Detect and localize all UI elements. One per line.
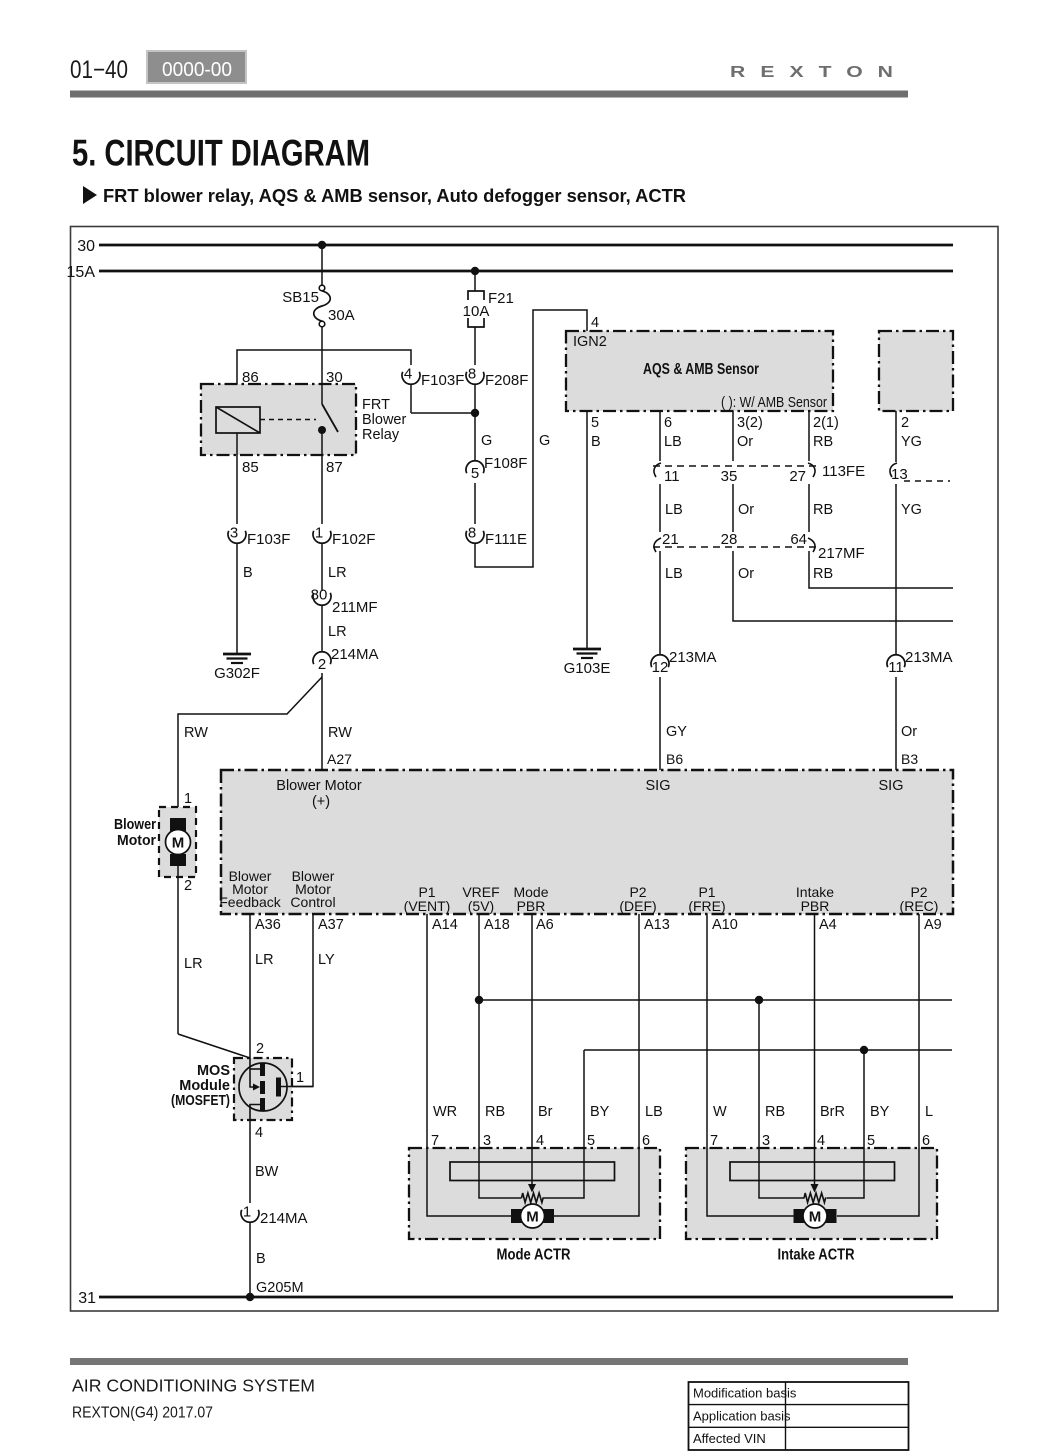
svg-text:LB: LB: [665, 566, 683, 582]
svg-text:REXTON: REXTON: [730, 63, 908, 81]
svg-text:M: M: [526, 1209, 539, 1226]
wire RB intake: [759, 1000, 805, 1198]
footer rule: [70, 1358, 908, 1365]
svg-text:10A: 10A: [463, 303, 490, 320]
svg-text:113FE: 113FE: [822, 463, 865, 480]
svg-text:Blower: Blower: [114, 817, 156, 833]
svg-text:30: 30: [326, 369, 343, 386]
svg-text:Relay: Relay: [362, 427, 400, 443]
wire to fuse F21: [474, 271, 476, 291]
REXTON logo: [730, 63, 908, 81]
svg-text:4: 4: [817, 1133, 825, 1149]
svg-text:A13: A13: [644, 917, 670, 933]
svg-text:A36: A36: [255, 917, 281, 933]
wire bus30 to SB15: [321, 245, 323, 286]
svg-text:6: 6: [922, 1133, 930, 1149]
wire G down: [474, 413, 476, 461]
blower motor box: [159, 807, 196, 877]
blower & A/C controller box: [221, 770, 953, 914]
svg-text:31: 31: [78, 1290, 96, 1307]
svg-text:G205M: G205M: [256, 1280, 304, 1296]
svg-text:27: 27: [789, 468, 806, 485]
svg-text:Affected VIN: Affected VIN: [693, 1431, 766, 1446]
svg-text:213MA: 213MA: [669, 649, 717, 666]
svg-text:2(1): 2(1): [813, 415, 839, 431]
wire B to G103E: [586, 411, 588, 649]
svg-text:RB: RB: [485, 1104, 505, 1120]
svg-text:Br: Br: [538, 1104, 553, 1120]
relay FRT Blower Relay box: [201, 384, 356, 455]
svg-text:12: 12: [652, 659, 669, 676]
wire A13 LB: [554, 914, 639, 1216]
svg-text:6: 6: [642, 1133, 650, 1149]
svg-text:RW: RW: [328, 725, 352, 741]
svg-text:A14: A14: [432, 917, 458, 933]
svg-text:G302F: G302F: [214, 665, 260, 682]
svg-text:21: 21: [662, 531, 679, 548]
svg-text:RB: RB: [813, 502, 833, 518]
wire VREF rail: [479, 999, 952, 1001]
svg-text:SIG: SIG: [879, 778, 904, 794]
node F208F junction: [471, 409, 479, 417]
svg-text:G: G: [539, 433, 550, 449]
svg-text:Intake ACTR: Intake ACTR: [778, 1247, 855, 1264]
svg-text:M: M: [809, 1209, 822, 1226]
svg-text:28: 28: [721, 531, 738, 548]
wire RW split: [321, 673, 323, 770]
svg-text:L: L: [925, 1104, 933, 1120]
svg-text:Or: Or: [738, 502, 754, 518]
MOSFET symbol: [239, 1058, 313, 1120]
svg-text:4: 4: [255, 1125, 263, 1141]
wire A9 L: [837, 914, 919, 1216]
svg-text:80: 80: [311, 587, 328, 604]
wire A36 LR: [249, 914, 251, 1058]
svg-text:Or: Or: [738, 566, 754, 582]
wire branch to coil 86 and F103F: [237, 350, 411, 407]
svg-text:8: 8: [468, 366, 476, 383]
connector row 113FE: [653, 463, 865, 485]
wire fuse to F208F: [474, 327, 476, 365]
AQS & AMB Sensor box: [566, 331, 833, 411]
connector 5 F108F: [466, 455, 527, 482]
node G205M: [246, 1293, 254, 1301]
svg-text:FRT: FRT: [362, 397, 390, 413]
diagram frame: [71, 227, 999, 1312]
wire blower to MOS diagonal: [178, 1034, 250, 1058]
svg-text:1: 1: [296, 1070, 304, 1086]
svg-text:WR: WR: [433, 1104, 457, 1120]
wire to F111E: [474, 483, 476, 524]
connector 2 214MA: [313, 646, 379, 673]
intake actuator box: [686, 1148, 937, 1239]
node bus15A junction: [471, 267, 479, 275]
mode actuator box: [409, 1148, 660, 1239]
wire YG column: [895, 411, 897, 462]
svg-text:YG: YG: [901, 502, 922, 518]
svg-text:5: 5: [471, 465, 479, 482]
svg-text:B: B: [256, 1251, 266, 1267]
svg-text:G103E: G103E: [564, 660, 611, 677]
wire IGN2 feed: [475, 310, 587, 567]
svg-text:AQS & AMB Sensor: AQS & AMB Sensor: [643, 361, 759, 378]
svg-text:LR: LR: [328, 624, 347, 640]
svg-text:30A: 30A: [328, 307, 355, 324]
right sensor box (truncated): [879, 331, 953, 411]
node bus30 junction: [318, 241, 326, 249]
svg-text:LR: LR: [328, 565, 347, 581]
svg-text:( ): W/ AMB Sensor: ( ): W/ AMB Sensor: [721, 395, 827, 411]
wire B to G205M: [249, 1222, 251, 1297]
wire BY mode: [544, 1050, 585, 1198]
svg-text:(+): (+): [312, 794, 330, 810]
wire blower motor pin2: [177, 866, 179, 1034]
svg-text:BW: BW: [255, 1164, 279, 1180]
svg-text:F108F: F108F: [484, 455, 527, 472]
wire F103F leg: [410, 384, 412, 413]
wire LR: [321, 543, 323, 591]
section code box 0000-00: [147, 51, 246, 83]
svg-text:AIR CONDITIONING SYSTEM: AIR CONDITIONING SYSTEM: [72, 1376, 315, 1396]
svg-text:Or: Or: [901, 724, 917, 740]
svg-text:Motor: Motor: [117, 833, 156, 849]
fuse F21 10A: [463, 290, 514, 327]
svg-text:7: 7: [431, 1133, 439, 1149]
wire A37 LY: [281, 914, 313, 1087]
svg-text:W: W: [713, 1104, 727, 1120]
connector 13: [890, 463, 950, 483]
wire B to ground: [236, 543, 238, 654]
svg-text:Blower Motor: Blower Motor: [276, 778, 362, 794]
svg-text:YG: YG: [901, 434, 922, 450]
relay link dashed: [260, 419, 316, 421]
svg-text:86: 86: [242, 369, 259, 386]
svg-text:Blower: Blower: [362, 412, 406, 428]
svg-text:LR: LR: [255, 952, 274, 968]
wire Or column: [732, 411, 734, 461]
svg-text:LB: LB: [645, 1104, 663, 1120]
wire PBR low rail: [584, 1049, 952, 1051]
svg-text:5: 5: [591, 415, 599, 431]
wire relay85 down: [236, 433, 238, 524]
blower motor M: [166, 818, 191, 866]
svg-text:2: 2: [318, 656, 326, 673]
svg-text:LR: LR: [184, 956, 203, 972]
svg-text:211MF: 211MF: [332, 599, 378, 616]
mode actuator potentiometer: [522, 1193, 544, 1203]
svg-text:SB15: SB15: [282, 289, 319, 306]
svg-text:A9: A9: [924, 917, 942, 933]
svg-text:15A: 15A: [67, 264, 96, 281]
svg-text:F111E: F111E: [485, 531, 527, 548]
svg-text:LB: LB: [664, 434, 682, 450]
svg-text:217MF: 217MF: [818, 545, 865, 562]
svg-text:A10: A10: [712, 917, 738, 933]
svg-text:Feedback: Feedback: [219, 894, 281, 910]
svg-text:GY: GY: [666, 724, 687, 740]
wire SB15 to relay pin30: [321, 327, 323, 384]
connector 4 F103F: [402, 366, 464, 390]
relay coil: [216, 407, 260, 433]
svg-text:(FRE): (FRE): [688, 898, 725, 914]
ground G302F: [214, 654, 260, 682]
wire relay87 down: [321, 455, 323, 524]
svg-text:4: 4: [536, 1133, 544, 1149]
connector 8 F111E: [466, 525, 527, 549]
svg-text:214MA: 214MA: [331, 646, 379, 663]
connector 11 213MA: [887, 649, 953, 676]
svg-text:3: 3: [483, 1133, 491, 1149]
svg-text:G: G: [481, 433, 492, 449]
wire join to node: [411, 412, 475, 414]
svg-text:B3: B3: [901, 751, 918, 767]
svg-text:A37: A37: [318, 917, 344, 933]
wire LR 2: [321, 605, 323, 652]
svg-text:PBR: PBR: [801, 898, 830, 914]
svg-text:(REC): (REC): [900, 898, 939, 914]
svg-text:Control: Control: [290, 894, 335, 910]
svg-text:5: 5: [867, 1133, 875, 1149]
svg-text:Modification basis: Modification basis: [693, 1386, 797, 1401]
svg-text:213MA: 213MA: [905, 649, 953, 666]
svg-text:A18: A18: [484, 917, 510, 933]
connector 3 F103F: [228, 525, 290, 549]
svg-text:35: 35: [721, 468, 738, 485]
svg-text:214MA: 214MA: [260, 1210, 308, 1227]
svg-text:2: 2: [256, 1041, 264, 1057]
svg-text:B: B: [243, 565, 253, 581]
svg-text:PBR: PBR: [517, 898, 546, 914]
svg-text:5. CIRCUIT DIAGRAM: 5. CIRCUIT DIAGRAM: [72, 133, 370, 174]
fusible link SB15 30A: [282, 285, 354, 327]
svg-text:IGN2: IGN2: [573, 334, 607, 350]
svg-text:(5V): (5V): [468, 898, 494, 914]
footer table: [689, 1382, 909, 1450]
svg-text:01−40: 01−40: [70, 56, 128, 84]
svg-text:FRT blower relay, AQS & AMB se: FRT blower relay, AQS & AMB sensor, Auto…: [103, 186, 686, 206]
wire LB column: [659, 411, 661, 461]
subtitle bullet: [83, 186, 97, 204]
relay switch: [321, 384, 323, 404]
mode actuator motor: [511, 1204, 554, 1228]
wire A18 RB: [479, 914, 522, 1198]
svg-text:A27: A27: [327, 751, 352, 767]
svg-text:8: 8: [468, 525, 476, 542]
svg-text:M: M: [172, 835, 185, 852]
svg-text:F102F: F102F: [332, 531, 375, 548]
intake actuator potentiometer: [804, 1193, 826, 1203]
connector 1 F102F: [313, 525, 375, 549]
svg-text:1: 1: [243, 1204, 251, 1221]
svg-text:BY: BY: [870, 1104, 890, 1120]
svg-text:4: 4: [404, 366, 412, 383]
svg-text:4: 4: [591, 315, 599, 331]
wire A14 WR: [427, 914, 511, 1216]
svg-text:(DEF): (DEF): [619, 898, 656, 914]
svg-text:2: 2: [184, 878, 192, 894]
svg-text:0000-00: 0000-00: [162, 59, 232, 81]
wire MOS pin4: [249, 1120, 251, 1203]
wire A4 BrR: [814, 914, 816, 1185]
svg-text:3: 3: [762, 1133, 770, 1149]
svg-text:REXTON(G4) 2017.07: REXTON(G4) 2017.07: [72, 1405, 213, 1422]
wire RB column: [808, 411, 810, 461]
wire A10 W: [707, 914, 794, 1216]
svg-text:BrR: BrR: [820, 1104, 845, 1120]
svg-text:2: 2: [901, 415, 909, 431]
svg-text:F208F: F208F: [485, 372, 528, 389]
svg-text:(MOSFET): (MOSFET): [171, 1093, 230, 1109]
svg-text:MOS: MOS: [197, 1063, 230, 1079]
svg-text:F21: F21: [488, 290, 514, 307]
mode actuator position strip: [450, 1162, 615, 1181]
connector row 217MF: [653, 531, 865, 562]
svg-text:A6: A6: [536, 917, 554, 933]
ground G103E: [564, 649, 611, 677]
svg-text:F103F: F103F: [247, 531, 290, 548]
svg-text:B6: B6: [666, 751, 683, 767]
svg-text:11: 11: [664, 468, 680, 485]
svg-text:3(2): 3(2): [737, 415, 763, 431]
connector 8 F208F: [466, 366, 528, 390]
svg-text:A4: A4: [819, 917, 837, 933]
svg-text:87: 87: [326, 459, 343, 476]
svg-text:Mode ACTR: Mode ACTR: [497, 1247, 571, 1264]
wire F208F leg: [474, 384, 476, 413]
wire A6 Br: [531, 914, 533, 1185]
svg-text:11: 11: [888, 659, 904, 676]
connector 12 213MA: [651, 649, 717, 676]
svg-text:30: 30: [77, 238, 95, 255]
svg-text:RB: RB: [813, 566, 833, 582]
svg-text:(VENT): (VENT): [404, 898, 451, 914]
svg-text:RW: RW: [184, 725, 208, 741]
svg-text:7: 7: [710, 1133, 718, 1149]
header rule: [70, 91, 908, 98]
svg-text:RB: RB: [813, 434, 833, 450]
wire BY intake: [827, 1050, 865, 1198]
svg-text:3: 3: [230, 525, 238, 542]
svg-text:Or: Or: [737, 434, 753, 450]
svg-text:LB: LB: [665, 502, 683, 518]
svg-text:B: B: [591, 434, 601, 450]
svg-text:85: 85: [242, 459, 259, 476]
svg-text:5: 5: [587, 1133, 595, 1149]
MOS module box: [234, 1058, 292, 1120]
svg-text:LY: LY: [318, 952, 335, 968]
svg-text:1: 1: [315, 525, 323, 542]
svg-text:64: 64: [790, 531, 807, 548]
svg-text:Application basis: Application basis: [693, 1409, 791, 1424]
intake actuator position strip: [730, 1162, 895, 1181]
connector 80 211MF: [311, 587, 331, 606]
svg-text:BY: BY: [590, 1104, 610, 1120]
svg-text:Module: Module: [179, 1078, 230, 1094]
connector 1 214MA lower: [241, 1204, 308, 1228]
intake actuator motor: [794, 1204, 837, 1228]
svg-text:SIG: SIG: [646, 778, 671, 794]
svg-text:F103F: F103F: [421, 372, 464, 389]
svg-text:1: 1: [184, 791, 192, 807]
svg-text:6: 6: [664, 415, 672, 431]
svg-text:RB: RB: [765, 1104, 785, 1120]
